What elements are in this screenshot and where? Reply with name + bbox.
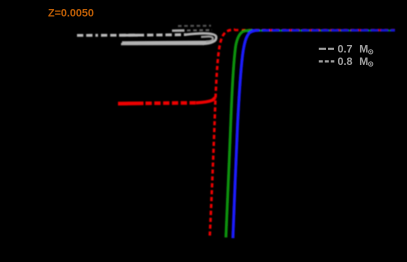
svg-text:0.8: 0.8 xyxy=(338,56,353,68)
gray 0.7 track long dash overlay xyxy=(119,34,138,37)
red track horizontal branch dashed xyxy=(146,101,198,105)
legend 0.8 sun symbol xyxy=(369,62,373,66)
green track curve xyxy=(226,30,252,237)
gray 0.8 track solid segment xyxy=(172,29,185,32)
blue track curve xyxy=(233,30,259,238)
gray 0.8 track faint upper dashed arm xyxy=(178,25,211,27)
gray 0.7 track top dashed arm xyxy=(77,33,186,37)
gray return arm lower xyxy=(121,43,204,46)
svg-text:M: M xyxy=(359,56,368,68)
legend 0.7 sun symbol xyxy=(369,50,373,54)
gray 0.7 track hairpin hook xyxy=(185,33,216,44)
green track plateau underlay xyxy=(244,29,395,31)
svg-text:M: M xyxy=(359,44,368,56)
gray inner hook xyxy=(201,37,213,42)
red plateau dashes xyxy=(235,29,395,31)
svg-text:Z=0.0050: Z=0.0050 xyxy=(48,8,94,20)
blue plateau dashes xyxy=(252,29,395,32)
legend marker 0.8 (three short dashes) xyxy=(319,60,335,62)
red track horizontal branch solid lead xyxy=(118,101,144,105)
gray return arm upper xyxy=(122,41,206,44)
red track descending branch dashed xyxy=(210,30,235,236)
svg-text:0.7: 0.7 xyxy=(338,44,353,56)
legend marker 0.7 (two long dashes) xyxy=(319,48,334,50)
red track elbow joint xyxy=(196,98,215,103)
gray 0.8 track faint dashed continuation xyxy=(187,29,212,31)
